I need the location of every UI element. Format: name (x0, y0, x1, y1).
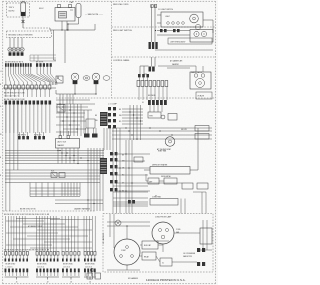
wire: top-right links (144, 66, 203, 74)
wire: drops row3 down (6, 105, 50, 134)
wire: drops rows 2-3 (6, 89, 50, 97)
wire: lower connect runs (55, 199, 103, 204)
svg-text:1 2 3 4 5 6: 1 2 3 4 5 6 (63, 266, 70, 268)
svg-text:COND FAN: COND FAN (152, 196, 161, 199)
water valve labels (51, 171, 65, 178)
thermistor box (168, 114, 177, 121)
wire: relay pins down (62, 21, 67, 30)
wire: ground drops (10, 38, 22, 48)
freezer junction dots (112, 153, 171, 197)
wire: changer to divider (203, 20, 213, 33)
label mc harness (102, 232, 105, 244)
wire: mid bus group 1 (5, 150, 104, 164)
comb row B harness (142, 95, 167, 105)
wire: dashed cord run to relay (23, 28, 50, 30)
svg-text:REF LINE CORD: REF LINE CORD (113, 4, 129, 6)
misc boxes right (182, 183, 208, 189)
svg-text:BK WH OR BU GY RD YL: BK WH OR BU GY RD YL (5, 61, 24, 63)
left margin labels (0, 71, 2, 177)
connector comb right-center (dark) (95, 112, 108, 126)
label row above bottom verticals (4, 214, 50, 216)
lamp FF1 (71, 73, 79, 84)
mc lamp (115, 220, 121, 226)
dark comb right mid (100, 158, 107, 174)
freezer connector column (110, 152, 117, 191)
label AT thermostat (157, 148, 171, 151)
label: see note right (113, 4, 129, 6)
wire: band2 runs (155, 30, 213, 50)
wire: long drops from relay (54, 30, 66, 63)
svg-text:16 14 12 10 8 6 4 2 1: 16 14 12 10 8 6 4 2 1 (4, 96, 19, 98)
svg-text:1 2 3 4 5 6: 1 2 3 4 5 6 (37, 266, 44, 268)
svg-text:BK WH RD: BK WH RD (148, 95, 156, 97)
svg-text:WH: WH (119, 115, 122, 117)
wire: compressor links (107, 225, 197, 270)
ground lamp 3 (16, 47, 20, 55)
water valve (190, 71, 212, 99)
comb row A harness (137, 81, 168, 87)
label: harness note (85, 14, 104, 16)
wire: evap lower runs (112, 127, 212, 139)
compartment divider horizontals right (56, 27, 215, 98)
label rows mid (4, 93, 25, 101)
connector pair right of ice maker (84, 128, 98, 138)
label LT COMP (108, 104, 118, 106)
ground lamp 4 (20, 47, 24, 55)
panel switch comb (149, 67, 155, 72)
PTC start relay (55, 5, 75, 22)
defrost heater label (152, 164, 168, 167)
wire: right column verticals upper (104, 128, 110, 150)
connector row 2 (3, 85, 56, 89)
ice maker pins (59, 131, 70, 139)
label KLIX (39, 8, 44, 10)
wire: run y30 (50, 24, 95, 31)
svg-text:BK WH OR BU: BK WH OR BU (63, 263, 73, 265)
svg-text:BK WH OR BU GY RD: BK WH OR BU GY RD (20, 209, 37, 211)
svg-text:12043A41 PRINTED IN U.S.A.: 12043A41 PRINTED IN U.S.A. (146, 278, 186, 282)
fan motor tall box (200, 228, 212, 244)
lamp socket 1 (83, 76, 90, 81)
lower freezer comb (113, 192, 206, 214)
svg-text:J3: J3 (70, 281, 72, 283)
svg-text:REF LIGHT SWITCH: REF LIGHT SWITCH (113, 30, 132, 32)
label: ref light switch (113, 30, 132, 32)
connector block J2 (36, 252, 59, 284)
svg-text:COND FRONT LAMP: COND FRONT LAMP (155, 216, 172, 219)
wire: staircase lower left (30, 183, 80, 197)
svg-text:GROUND CIRCUIT SHOWN: GROUND CIRCUIT SHOWN (8, 35, 33, 37)
svg-text:115 V: 115 V (9, 7, 15, 9)
svg-text:MC HARNESS: MC HARNESS (102, 232, 105, 244)
evap sensor circle (161, 115, 165, 119)
IC small box (86, 119, 95, 128)
svg-text:BK WH OR BU: BK WH OR BU (85, 263, 95, 265)
evap heater box (148, 112, 161, 118)
svg-text:COMP: COMP (121, 250, 126, 252)
terminal pair right 1 (197, 248, 205, 252)
condenser fan motor (152, 222, 181, 244)
wire: left feeders (6, 105, 18, 212)
wire: fan links (174, 220, 212, 250)
right side boxes (181, 126, 209, 140)
connector block J4 (84, 252, 96, 284)
label condenser fan motor (183, 253, 196, 258)
svg-text:1/4 CONDENSER: 1/4 CONDENSER (183, 253, 196, 255)
svg-text:BK WH OR BU: BK WH OR BU (37, 263, 47, 265)
AC supply dashed box (7, 3, 30, 17)
wire: grid runs right (122, 109, 143, 124)
label group A (18, 132, 29, 139)
switch comb band2 (149, 42, 158, 49)
svg-text:1 2 3 4 5 6: 1 2 3 4 5 6 (6, 266, 13, 268)
wire: freezer column runs (113, 128, 182, 214)
label row: colors top (5, 61, 44, 63)
run capacitor block (142, 241, 158, 249)
svg-text:BK WH OR BU GY RD YL BR: BK WH OR BU GY RD YL BR (4, 93, 25, 95)
wire: line cord (22, 16, 24, 28)
compartment divider lower-left (3, 210, 95, 212)
small box left-center (57, 105, 65, 113)
defrost thermostat boxes (146, 174, 177, 184)
overload box (160, 258, 172, 266)
svg-text:BK: BK (95, 115, 97, 117)
svg-text:OL: OL (162, 263, 164, 265)
wire: lamp drops (56, 84, 97, 104)
svg-text:BK WH OR BU GY RD YL BR TN PK: BK WH OR BU GY RD YL BR TN PK BK WH OR B… (4, 214, 50, 216)
ground circuit dashed box (7, 31, 52, 38)
small box left of evap fan (134, 157, 143, 162)
svg-text:KLIX: KLIX (39, 8, 44, 10)
svg-text:DEFROST HEATER: DEFROST HEATER (152, 164, 168, 167)
connector grid left rows (108, 107, 122, 128)
wall plug P1 (21, 1, 26, 16)
wire: lower right runs (113, 186, 148, 204)
condenser fan (150, 196, 178, 206)
small combs band2 (160, 29, 180, 32)
thin label box band2 (168, 38, 212, 44)
label cond front lamp (155, 216, 172, 219)
label: control panel (113, 59, 131, 62)
small boxes bottom far left of mc (87, 268, 101, 279)
svg-text:— SEE NOTE ——: — SEE NOTE —— (85, 14, 104, 16)
wire: mid-right verticals (130, 105, 162, 140)
freezer column labels (122, 155, 125, 193)
svg-text:J6: J6 (142, 102, 144, 104)
svg-text:J2: J2 (47, 281, 49, 283)
cord clamp X (22, 20, 25, 23)
wire: band3 drops to comb A (138, 74, 149, 81)
wire: mid bus group 2 (5, 170, 100, 183)
wire: center horizontal steps (56, 100, 95, 114)
compressor motor (114, 239, 140, 265)
connector row 1 (dark) (5, 63, 52, 67)
svg-text:CU LIGHT SWITCH: CU LIGHT SWITCH (158, 9, 174, 11)
svg-text:CONTROL PANEL: CONTROL PANEL (113, 59, 131, 62)
svg-text:CABINET HARNESS: CABINET HARNESS (74, 208, 91, 211)
svg-text:L1: L1 (0, 71, 2, 73)
relay block (142, 252, 156, 260)
svg-text:BK: BK (122, 155, 124, 157)
svg-text:BK WH OR BU: BK WH OR BU (6, 263, 16, 265)
footer part number (128, 277, 186, 282)
svg-text:B: B (0, 157, 1, 159)
wire: drops rows 1-2 (6, 67, 57, 85)
ice maker box (56, 139, 80, 149)
wire: center verticals (60, 104, 88, 136)
wire: bottom field cross runs (6, 219, 92, 249)
label cluster bottom of cabinet area (20, 208, 91, 211)
svg-text:DR HTR: DR HTR (181, 129, 188, 131)
svg-text:LIGHT: LIGHT (165, 16, 170, 18)
svg-text:DEF: DEF (149, 182, 152, 184)
label band mid field (28, 225, 43, 228)
wire: light changer feed pair (151, 5, 157, 43)
wire: dashed links to board (30, 55, 56, 61)
svg-text:MAKER: MAKER (58, 144, 65, 147)
wire: bottom field verticals (6, 216, 96, 252)
wire: ice maker drops to bus (57, 148, 78, 164)
ground lamp 2 (12, 47, 16, 55)
door switch upper (56, 76, 63, 83)
ground lamp 1 (8, 47, 12, 55)
run capacitor C1 (67, 1, 81, 30)
connector block J3 (62, 252, 80, 284)
svg-text:J4: J4 (89, 281, 91, 283)
wire: right bundle to bottom (88, 148, 103, 211)
machine compartment dashed box (103, 214, 213, 273)
svg-text:WH: WH (95, 120, 98, 122)
band3 notes (170, 60, 183, 67)
evap fan motor (158, 137, 175, 153)
label row above combs (4, 250, 50, 252)
svg-text:BK: BK (119, 109, 121, 111)
lamp socket 2 (103, 76, 110, 81)
svg-text:L.T. COMP: L.T. COMP (108, 104, 118, 106)
lamp FF2 (92, 73, 100, 84)
defrost heater (144, 128, 198, 174)
terminal pair right 2 (197, 262, 205, 266)
light changer box (157, 9, 203, 30)
compartment divider vertical (111, 2, 113, 99)
wire: center stubs lower (56, 116, 86, 132)
wire: mc top runs (107, 214, 150, 237)
svg-text:BR TN PK: BR TN PK (36, 61, 44, 63)
svg-text:AT THERMOSTAT: AT THERMOSTAT (157, 148, 171, 151)
connector block J1 (5, 252, 29, 284)
wire: bundle comb A to B (139, 87, 167, 101)
wire: panel runs (140, 57, 196, 74)
svg-text:W.V.: W.V. (51, 171, 55, 173)
label group B (34, 132, 45, 139)
svg-text:1 2 3 4 5 6: 1 2 3 4 5 6 (85, 266, 92, 268)
svg-text:J1: J1 (16, 281, 18, 283)
connector row 3 (dark) (5, 101, 52, 105)
svg-text:AUTO ICE: AUTO ICE (58, 141, 67, 144)
butter lamp box (190, 30, 213, 43)
svg-text:60 HZ: 60 HZ (9, 11, 16, 13)
